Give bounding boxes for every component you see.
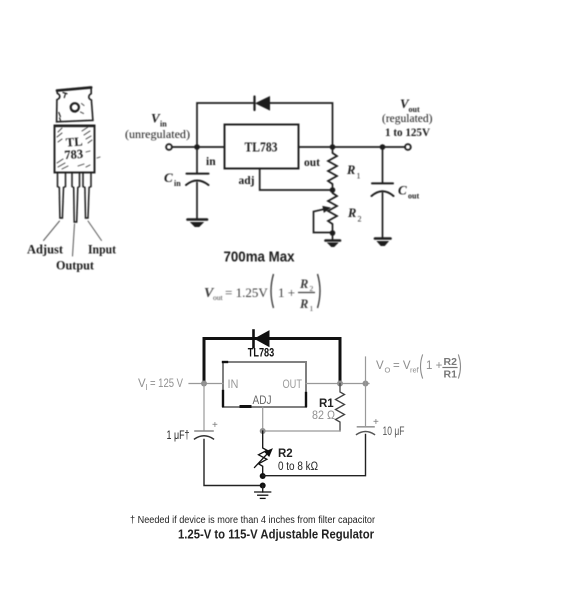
svg-text:in: in <box>160 120 167 129</box>
node input junction <box>201 381 207 387</box>
svg-text:(regulated): (regulated) <box>382 113 433 125</box>
package marking TL 783 <box>64 134 84 162</box>
pin 2 output leg <box>72 173 80 223</box>
terminal Vin <box>166 144 172 150</box>
wire Cout to ground <box>382 193 384 238</box>
TL783 package mounting tab <box>55 87 94 126</box>
wire Vin terminal to input node <box>172 146 224 148</box>
svg-text:IN: IN <box>228 379 239 391</box>
terminal Vout <box>405 144 411 150</box>
node VO tap <box>363 381 369 387</box>
ground below R2 <box>326 241 341 247</box>
label Vin <box>151 111 167 129</box>
wire Cin to ground <box>196 183 198 220</box>
svg-text:V: V <box>376 360 384 372</box>
svg-text:Output: Output <box>56 258 95 273</box>
wire adj pin to adj node <box>260 169 333 191</box>
capacitor C1 1uF <box>195 420 219 439</box>
svg-text:783: 783 <box>64 147 84 162</box>
node output junction <box>330 144 336 150</box>
capacitor Cout <box>372 183 394 196</box>
ground below Cout <box>375 239 391 246</box>
svg-text:= 125 V: = 125 V <box>150 378 183 390</box>
leader line to Input label <box>88 221 102 241</box>
svg-text:O: O <box>385 366 391 375</box>
wire input node down to Cin <box>196 147 198 173</box>
wire VI to IN pin <box>189 383 223 385</box>
svg-text:1 +: 1 + <box>426 360 443 372</box>
capacitor C2 10uF <box>357 417 380 435</box>
wire ADJ node to R1 bottom <box>263 430 340 432</box>
node R2 bottom junction <box>260 473 266 479</box>
wire diode cathode to output node <box>269 103 333 147</box>
wire VO stub and C2 top lead <box>365 357 367 427</box>
package sketch hatching <box>57 127 100 169</box>
wire input node up to diode anode <box>197 103 253 147</box>
wire Cout tap to Vout terminal <box>383 146 406 148</box>
wire ADJ pin <box>262 407 264 431</box>
svg-text:10 μF: 10 μF <box>383 426 405 438</box>
svg-text:R: R <box>299 277 308 291</box>
label Cout <box>398 183 419 201</box>
regulator U2 box <box>223 362 306 407</box>
pin 1 adjust leg <box>58 173 66 219</box>
leader line to Adjust label <box>44 221 60 241</box>
svg-text:= V: = V <box>393 360 411 372</box>
formula VO = Vref(1 + R2/R1) <box>376 355 461 381</box>
label R2 <box>347 206 362 224</box>
svg-text:700ma Max: 700ma Max <box>224 249 296 266</box>
svg-text:TL783: TL783 <box>245 140 278 155</box>
wire thick diode branch <box>204 339 340 384</box>
TL783 package body <box>55 126 95 173</box>
svg-text:out: out <box>304 157 320 169</box>
potentiometer R2 <box>255 431 272 476</box>
svg-text:2: 2 <box>358 215 362 224</box>
label Cin <box>164 170 181 188</box>
svg-text:Input: Input <box>88 242 117 257</box>
wire OUT pin to output node <box>306 383 369 385</box>
svg-text:in: in <box>206 156 216 168</box>
svg-text:OUT: OUT <box>283 379 303 391</box>
svg-text:R: R <box>346 163 355 177</box>
wire out pin to output node <box>299 146 333 148</box>
svg-text:C: C <box>164 170 173 185</box>
svg-text:C: C <box>398 183 407 198</box>
svg-text:2: 2 <box>310 284 314 293</box>
svg-text:R2: R2 <box>278 448 293 460</box>
label R1 <box>346 163 361 181</box>
svg-text:Adjust: Adjust <box>27 242 64 257</box>
wire output node to Cout tap <box>333 146 383 148</box>
label Vout <box>400 96 420 114</box>
wire R2 bottom to ground <box>332 233 334 240</box>
svg-text:out: out <box>408 192 419 201</box>
svg-text:= 1.25V: = 1.25V <box>225 285 268 300</box>
diode D1 <box>255 97 270 111</box>
svg-text:ref: ref <box>410 366 420 375</box>
svg-text:R1: R1 <box>444 369 458 381</box>
svg-text:0 to 8 kΩ: 0 to 8 kΩ <box>278 461 318 473</box>
capacitor C1 1uF lead <box>203 384 205 431</box>
node ADJ junction <box>260 428 266 434</box>
ground below Cin <box>188 220 208 227</box>
svg-text:R: R <box>347 206 356 220</box>
svg-text:1: 1 <box>357 172 361 181</box>
svg-text:1: 1 <box>310 304 314 313</box>
svg-text:out: out <box>213 293 224 302</box>
svg-text:I: I <box>146 383 148 392</box>
svg-text:+: + <box>212 420 218 431</box>
node input junction <box>194 144 200 150</box>
wire R2 bottom to C2 bottom <box>263 435 366 476</box>
pin 3 input leg <box>83 173 91 219</box>
capacitor Cin <box>186 174 209 185</box>
svg-text:1 +: 1 + <box>278 285 295 300</box>
node bottom junction <box>260 483 266 489</box>
ground <box>255 492 271 498</box>
wire bottom junction to ground <box>262 486 264 493</box>
svg-text:† Needed if device is more tha: † Needed if device is more than 4 inches… <box>130 515 376 526</box>
svg-text:+: + <box>373 417 379 428</box>
svg-text:ADJ: ADJ <box>253 395 272 407</box>
node output junction <box>337 381 343 387</box>
node adj junction <box>330 187 336 193</box>
svg-text:(unregulated): (unregulated) <box>125 129 190 141</box>
svg-text:82 Ω: 82 Ω <box>312 410 335 422</box>
resistor R1 <box>328 147 337 190</box>
wire C1 bottom to bottom junction <box>204 440 263 486</box>
regulator U1 TL783 box <box>225 125 299 169</box>
svg-text:1.25-V to 115-V Adjustable Reg: 1.25-V to 115-V Adjustable Regulator <box>178 528 374 542</box>
svg-text:adj: adj <box>239 175 255 187</box>
node Cout tap <box>380 144 386 150</box>
svg-text:TL783: TL783 <box>248 348 275 360</box>
resistor R1 <box>336 384 345 432</box>
leader line to Output label <box>73 224 75 256</box>
svg-text:in: in <box>174 179 181 188</box>
svg-text:R2: R2 <box>444 356 458 368</box>
wire Cout tap down to Cout <box>382 147 384 183</box>
formula Vout = 1.25V(1 + R2/R1) <box>204 274 320 313</box>
package mounting hole <box>71 103 84 113</box>
svg-text:R1: R1 <box>319 398 334 410</box>
svg-text:1 μF†: 1 μF† <box>167 430 190 442</box>
diode CR1 <box>254 331 270 348</box>
svg-text:R: R <box>299 297 308 311</box>
label VI = 125 V <box>138 378 183 392</box>
svg-text:1 to 125V: 1 to 125V <box>385 127 431 139</box>
node R2 bottom junction <box>330 230 336 236</box>
potentiometer R2 <box>314 190 338 233</box>
